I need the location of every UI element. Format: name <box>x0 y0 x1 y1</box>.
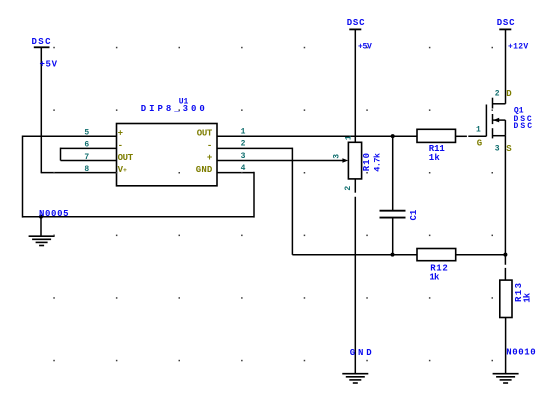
svg-text:C1: C1 <box>409 209 419 220</box>
svg-text:N0010: N0010 <box>506 348 535 358</box>
svg-text:1k: 1k <box>429 153 441 163</box>
svg-text:GND: GND <box>196 165 213 175</box>
svg-text:OUT: OUT <box>118 153 134 163</box>
svg-text:D: D <box>506 89 512 99</box>
svg-text:N0005: N0005 <box>39 209 69 219</box>
svg-text:DSC: DSC <box>32 37 52 47</box>
svg-text:1k: 1k <box>429 272 440 282</box>
svg-text:7: 7 <box>84 153 89 162</box>
svg-text:2: 2 <box>241 140 246 149</box>
svg-text:1k: 1k <box>523 292 533 303</box>
svg-text:3: 3 <box>333 154 342 159</box>
svg-text:+: + <box>207 153 212 163</box>
svg-text:DSC: DSC <box>347 18 365 28</box>
svg-text:5: 5 <box>84 129 89 138</box>
svg-text:DSC: DSC <box>514 122 533 131</box>
svg-text:4: 4 <box>241 164 246 173</box>
svg-text:+: + <box>123 167 127 174</box>
svg-text:2: 2 <box>344 186 353 191</box>
svg-text:-: - <box>207 141 212 151</box>
svg-text:+12V: +12V <box>508 42 528 51</box>
svg-text:G: G <box>477 138 482 148</box>
svg-text:+5V: +5V <box>40 60 58 70</box>
svg-text:-: - <box>118 141 123 151</box>
svg-text:GND: GND <box>350 348 372 358</box>
svg-text:1: 1 <box>241 128 246 137</box>
svg-text:1: 1 <box>345 135 354 140</box>
svg-text:2: 2 <box>495 89 500 98</box>
svg-text:S: S <box>506 144 512 154</box>
svg-text:R10: R10 <box>362 153 372 171</box>
svg-text:+5V: +5V <box>358 42 372 51</box>
svg-text:3: 3 <box>495 144 500 153</box>
svg-text:8: 8 <box>84 165 89 174</box>
svg-text:DSC: DSC <box>497 18 515 28</box>
svg-text:4.7k: 4.7k <box>373 153 383 172</box>
svg-text:6: 6 <box>84 141 89 150</box>
svg-text:+: + <box>118 129 123 139</box>
svg-text:3: 3 <box>241 152 246 161</box>
svg-text:OUT: OUT <box>197 129 213 139</box>
svg-text:1: 1 <box>476 125 481 134</box>
